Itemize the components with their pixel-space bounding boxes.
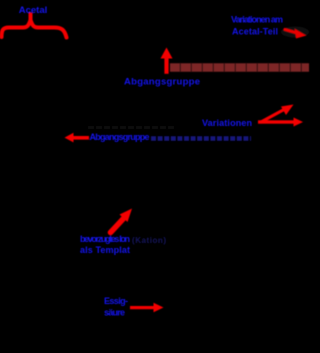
svg-text:Acetal-Teil: Acetal-Teil [232, 27, 278, 37]
maroon highlight bar over bond row [170, 63, 309, 72]
svg-text:säure: säure [104, 308, 125, 318]
svg-text:Abgangsgruppe: Abgangsgruppe [90, 132, 150, 142]
thick arrow pointing up-right (to stabilized cation) [111, 219, 124, 233]
svg-text:als Templat: als Templat [80, 245, 130, 255]
arrow pointing right (from acetic acid label) [130, 306, 156, 309]
svg-text:bevorzugtes Ion: bevorzugtes Ion [80, 234, 130, 244]
svg-text:(Kation): (Kation) [132, 236, 166, 245]
navy dashed underline after lower label [151, 136, 251, 141]
svg-text:Acetal: Acetal [19, 5, 48, 16]
arrow pointing up (mid left, above Abgangsgruppe label) [164, 55, 168, 74]
faint dark line above left label [88, 126, 175, 129]
svg-text:Variationen am: Variationen am [231, 15, 283, 25]
arrow pointing up-right (from Variationen, diagonal) [261, 110, 284, 123]
arrow pointing right (from Variationen) [258, 120, 294, 123]
brace (red overbrace under Acetal label) [2, 15, 31, 38]
svg-text:Essig-: Essig- [104, 296, 128, 306]
arrow pointing left (to Abgangsgruppe lower) [71, 136, 89, 140]
svg-text:Abgangsgruppe: Abgangsgruppe [124, 77, 200, 88]
arrow from top-right label pointing right-down [285, 30, 297, 34]
faint halo behind top-right arrow [281, 27, 309, 38]
svg-text:Variationen: Variationen [202, 118, 252, 128]
